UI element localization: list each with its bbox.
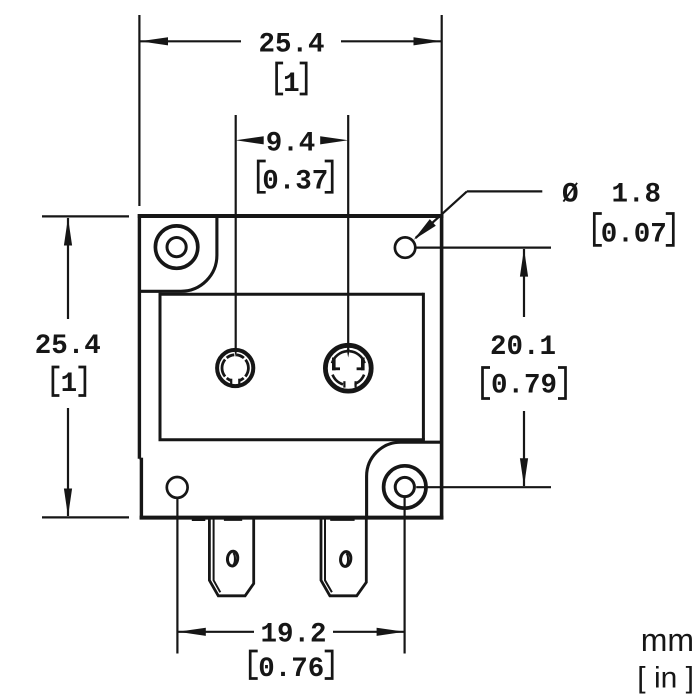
right blade shoulder line — [330, 519, 354, 521]
body outline left edge lower — [140, 458, 143, 520]
dimension 9.4: extension line left into left terminal — [235, 115, 237, 350]
dimension 25.4 left: extension line bottom — [42, 516, 129, 518]
svg-text:1: 1 — [61, 369, 78, 400]
bottom-right corner tab with rounded corner — [367, 442, 443, 519]
bottom-left small hole (diameter 1.8mm) — [167, 477, 188, 498]
dimension 25.4 top: dimension line left segment — [140, 40, 241, 42]
left terminal outer ring — [217, 350, 253, 386]
right blade folded edge line — [325, 518, 332, 592]
leader arrowhead — [414, 219, 436, 240]
svg-text:0.79: 0.79 — [491, 371, 557, 402]
dimension 9.4: extension line right into right terminal — [347, 115, 349, 350]
right terminal bottom notch slot — [346, 380, 355, 388]
left terminal inner ring segmented arcs — [222, 355, 248, 381]
svg-text:25.4: 25.4 — [258, 30, 324, 61]
dimension 25.4 left: dimension line lower segment — [67, 408, 69, 516]
svg-text:0.76: 0.76 — [258, 654, 324, 685]
right terminal right spring clip — [361, 358, 365, 371]
dimension 20.1: dimension line upper segment — [523, 249, 525, 317]
inner face top edge — [159, 293, 424, 296]
dimension 19.2: extension line left — [176, 499, 178, 654]
dimension 25.4 top: dimension line right segment — [341, 40, 441, 42]
top-right small hole (diameter 1.8mm) — [395, 237, 415, 257]
dimension 19.2: left arrowhead — [178, 628, 206, 636]
body outline left edge upper — [138, 214, 141, 459]
svg-text:1: 1 — [283, 69, 300, 100]
right blade oval hole — [340, 551, 352, 567]
left blade shoulder bump — [192, 516, 206, 521]
body outline left edge step — [139, 458, 141, 460]
dimension 25.4 top: extension line right — [441, 15, 443, 214]
top-left corner tab with rounded corner — [138, 215, 217, 292]
dimension 20.1: extension line top — [416, 247, 551, 249]
dimension 25.4 left: bracketed inch value [1] — [53, 367, 60, 396]
svg-text:0.07: 0.07 — [601, 220, 667, 251]
svg-text:20.1: 20.1 — [490, 332, 556, 363]
bottom-right mounting hole inner circle — [395, 477, 414, 496]
dimension 19.2: dimension line left segment — [178, 631, 254, 633]
dimension 9.4: right arrowhead pointing right — [320, 136, 348, 144]
hole callout: bracketed inch value [0.07] — [594, 214, 602, 246]
body outline bottom edge — [140, 516, 444, 520]
dimension 9.4: bracketed inch value [0.37] — [258, 161, 266, 192]
dimension 20.1: top arrowhead — [520, 249, 528, 277]
dimension 20.1: extension line bottom — [416, 486, 551, 488]
right terminal outer ring — [325, 345, 371, 391]
right blade terminal outline — [321, 518, 366, 596]
dimension 25.4 left: top arrowhead — [64, 218, 72, 246]
dimension 19.2: bracketed inch value [0.76] — [250, 651, 258, 679]
dimension 9.4: left arrowhead pointing left — [236, 136, 264, 144]
dimension 19.2: right arrowhead — [377, 628, 405, 636]
dimension 25.4 left: extension line top — [42, 215, 129, 217]
dimension 25.4 left: bottom arrowhead — [64, 489, 72, 517]
right terminal left spring clip — [332, 358, 336, 371]
dimension 20.1: bracketed inch value [0.79] — [483, 368, 491, 399]
bottom-right mounting hole outer circle — [384, 466, 426, 508]
inner face left edge — [159, 293, 162, 440]
svg-text:9.4: 9.4 — [266, 129, 316, 160]
svg-text:[ in ]: [ in ] — [637, 662, 694, 695]
dimension 20.1: bottom arrowhead — [520, 458, 528, 486]
dimension 25.4 top: bracketed inch value [1] — [277, 63, 284, 94]
right terminal inner ring segmented arcs — [332, 351, 365, 384]
leader line for hole callout — [467, 190, 542, 192]
body outline right edge — [440, 214, 444, 519]
svg-text:19.2: 19.2 — [260, 620, 326, 651]
left blade terminal outline — [209, 518, 253, 596]
top-left mounting hole outer circle — [155, 226, 197, 268]
dimension 20.1: dimension line lower segment — [523, 411, 525, 486]
dimension 25.4 left: dimension line upper segment — [67, 218, 69, 319]
dimension 25.4 top: extension line left — [138, 15, 140, 206]
dimension 19.2: dimension line right segment — [333, 631, 404, 633]
left blade folded edge line — [214, 518, 221, 592]
dimension 25.4 top: left arrowhead — [140, 37, 168, 45]
inner face right edge — [422, 293, 425, 440]
left blade oval hole — [227, 551, 239, 567]
svg-text:mm: mm — [641, 622, 694, 658]
svg-text:Ø 1.8: Ø 1.8 — [562, 180, 661, 211]
body outline top edge — [138, 214, 444, 218]
left terminal bottom notch slot — [232, 377, 238, 385]
inner face bottom edge — [159, 438, 425, 441]
dimension 19.2: extension line right — [404, 498, 406, 654]
top-left mounting hole inner circle — [167, 238, 186, 257]
svg-text:0.37: 0.37 — [262, 167, 328, 198]
dimension 25.4 top: right arrowhead — [414, 37, 442, 45]
svg-text:25.4: 25.4 — [35, 331, 101, 362]
